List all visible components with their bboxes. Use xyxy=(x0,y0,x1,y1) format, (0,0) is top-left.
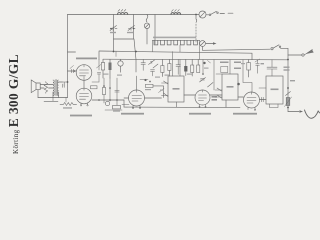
electrolytic C12 dark xyxy=(184,66,187,72)
wire: long bottom bus xyxy=(124,106,240,109)
label: V5 type xyxy=(233,113,257,115)
IF transformer Z2 xyxy=(222,74,238,100)
label: resistor value xyxy=(234,62,241,64)
trimmer arrow xyxy=(200,78,206,83)
wire: V1 V2 link xyxy=(83,80,85,88)
blob: junction xyxy=(203,62,205,64)
wire: Z2 to V5 xyxy=(238,96,244,98)
node: mains socket xyxy=(302,54,304,56)
wire: V3 top xyxy=(136,76,138,90)
wire: V3 to ground bus xyxy=(123,100,125,107)
label: right of C17 xyxy=(284,67,290,68)
resistor R14 xyxy=(113,106,121,109)
transformer T1 core xyxy=(55,80,56,96)
tube V4 EBF11 xyxy=(195,90,210,105)
wire: V3 left stub xyxy=(124,97,129,99)
resistor R7 xyxy=(197,65,200,73)
node: junction x196 xyxy=(195,14,197,16)
label: R1 value xyxy=(63,107,72,108)
wire: Z1 bottom to bus xyxy=(176,102,178,107)
wire: Z1 to V4 xyxy=(184,94,195,96)
trimmer C1 xyxy=(111,27,118,30)
capacitor C14 xyxy=(262,97,264,101)
node: dots row xyxy=(103,85,105,87)
wire: stub bus to R1 xyxy=(65,98,67,103)
wire: squiggle gang link xyxy=(195,15,198,23)
wire: V5 to output box xyxy=(260,99,267,101)
Z1 left taps xyxy=(164,81,169,97)
node: bus A dot2 xyxy=(135,51,137,53)
capacitor C16 polar xyxy=(256,60,260,74)
mains plug arrow xyxy=(306,50,314,55)
capacitor C19 xyxy=(115,91,119,93)
coil L1 antenna xyxy=(118,13,128,15)
wire: box left input upper xyxy=(259,87,266,89)
switch S2 mains xyxy=(271,48,273,50)
wire: Z2 top feed xyxy=(216,60,230,75)
tube V3 ECH11 xyxy=(129,90,145,106)
IF transformer Z1 xyxy=(168,76,184,102)
wire: bus A left drop xyxy=(98,52,100,60)
node: bus dots xyxy=(98,99,100,101)
transformer T1 secondary xyxy=(57,80,58,96)
transformer T1 primary xyxy=(53,80,54,96)
tube V1 hexode xyxy=(76,65,92,81)
node: join at left drop xyxy=(67,81,69,83)
wire: V1 grid lead xyxy=(68,70,77,72)
trimmer arrows C9 xyxy=(149,60,159,68)
tube V5 output xyxy=(244,92,260,108)
trimmer arrow right vertical xyxy=(286,92,291,96)
node: dots xyxy=(248,51,250,53)
blob: junction dark xyxy=(237,83,240,86)
label: value smear j xyxy=(113,111,120,112)
lamp La2 xyxy=(200,41,206,47)
wire: short heater line xyxy=(105,109,122,111)
switch S1 xyxy=(206,14,209,16)
trimmer arrow 2 xyxy=(208,83,214,88)
label: Z2 inside xyxy=(227,86,234,88)
pin circles V2 xyxy=(80,105,81,106)
label: Z1 inside xyxy=(173,88,180,90)
label: value smear i xyxy=(145,89,151,90)
label: V2 type xyxy=(70,115,92,117)
label: waveband names xyxy=(153,37,196,39)
wire: V5 top feed xyxy=(243,60,252,93)
wire: x214 column xyxy=(213,60,215,91)
wire: x99 column xyxy=(98,60,100,71)
resistor R13 vertical xyxy=(102,88,105,95)
capacitor C10 xyxy=(151,70,155,76)
wire: V4 to Z2 xyxy=(210,94,222,96)
wire: Z2 bottom xyxy=(225,100,227,107)
wire: right main vertical xyxy=(287,48,289,111)
wire: below gang xyxy=(146,29,148,45)
label: value smear a xyxy=(104,74,109,75)
wire: coil taps to bus xyxy=(153,40,200,59)
wire: filter right leg xyxy=(133,15,135,40)
wire: second ground line xyxy=(44,98,58,102)
resistor R8 xyxy=(146,84,154,87)
tuning gang C3 lead xyxy=(146,15,148,23)
wire: mains tap xyxy=(288,54,302,56)
wire: filter bottom xyxy=(114,38,134,40)
capacitor C5 xyxy=(63,84,65,87)
wire: arrow right of La2 xyxy=(206,43,214,45)
speaker field coil xyxy=(44,82,47,94)
component row mid: resistor R4 xyxy=(161,66,164,73)
tube V2 triode xyxy=(76,88,92,104)
electrolytic C15 xyxy=(248,60,250,63)
capacitor C17 horizontal bars xyxy=(267,60,277,77)
wire: vertical to bus below filter xyxy=(134,39,136,72)
resistor R2 xyxy=(102,60,104,63)
wire: Z1 top feeds xyxy=(173,52,181,77)
Z2 left taps xyxy=(217,88,222,98)
blobs: component bottoms xyxy=(144,79,146,81)
label: right text xyxy=(290,80,295,81)
label: V1 type xyxy=(76,58,97,60)
label: V4 type EBF11 xyxy=(212,96,218,98)
capacitor C11 xyxy=(176,60,180,75)
wire: box bottom leads xyxy=(270,104,279,108)
wire: branch at y52 xyxy=(68,51,76,53)
capacitor C4 grid xyxy=(72,69,74,72)
wire: filter left leg xyxy=(113,15,115,52)
label: under V4 xyxy=(189,113,211,115)
pickup V hook xyxy=(305,110,319,118)
wire: speaker leads xyxy=(40,85,53,89)
lamp La1 dial xyxy=(199,11,206,18)
wire: column x117 xyxy=(116,78,118,105)
label: V3 type xyxy=(121,113,144,115)
wire: bus B main xyxy=(103,58,288,61)
tuning gang C3 rotor xyxy=(144,23,149,28)
resistor R12 xyxy=(91,86,98,89)
speaker LS cone xyxy=(36,83,40,90)
wire: V3 plate to Z1 xyxy=(145,97,162,99)
electrolytic C6 dark xyxy=(109,60,111,63)
resistor R5 xyxy=(168,64,171,71)
wire: left antenna drop xyxy=(67,15,69,98)
capacitor C18 xyxy=(92,73,101,83)
trimmer C2 xyxy=(129,27,136,30)
resistor R6 xyxy=(191,65,194,73)
circle component C7 xyxy=(120,60,122,62)
wire: osc left leg xyxy=(154,15,156,45)
wire: bottom right with arrow xyxy=(288,111,299,113)
label: cap value xyxy=(220,62,229,64)
wire: left ground bus xyxy=(38,97,68,99)
wire: x203 column xyxy=(202,60,204,75)
label: value smear b xyxy=(117,75,122,76)
resistor R11 xyxy=(286,98,290,106)
wire: column x104 xyxy=(103,78,105,103)
label: trimmer values xyxy=(110,32,116,33)
wire: La2 to bus C xyxy=(202,46,204,50)
label: value smear c xyxy=(155,77,160,78)
wire: V2 pin link xyxy=(122,104,129,106)
trimmer C13 xyxy=(159,89,165,93)
wire: bus C anode xyxy=(203,49,271,50)
coil L3 oscillator bank rail xyxy=(153,39,200,41)
wire: mid ground bus xyxy=(92,99,124,101)
wire: S2 to right vertical xyxy=(281,47,289,49)
label: box inside xyxy=(271,89,279,91)
node: bus A dot xyxy=(113,51,115,53)
wire: dashed gang coupling xyxy=(195,24,197,42)
wire: antenna top bus xyxy=(68,14,200,16)
output transformer box xyxy=(266,76,283,104)
label: value smear h xyxy=(160,90,164,91)
wire: speaker bottoms xyxy=(38,90,59,98)
resistor R1 heater zigzag xyxy=(60,103,77,106)
label: value smear d xyxy=(165,75,170,76)
wire: stub dashes after S1 xyxy=(220,12,233,14)
capacitor C8 xyxy=(141,60,145,71)
coil L3 comb sections xyxy=(154,40,197,45)
label: 3x xyxy=(261,63,265,64)
label: value smear f xyxy=(204,68,209,69)
wire: bus A screen xyxy=(99,51,252,60)
wire: column x110 xyxy=(109,78,111,101)
label: value smear e xyxy=(187,74,192,75)
label: value smear g xyxy=(241,63,245,64)
coil L2 RF xyxy=(171,13,181,15)
electrolytic C20 circle xyxy=(105,101,109,105)
